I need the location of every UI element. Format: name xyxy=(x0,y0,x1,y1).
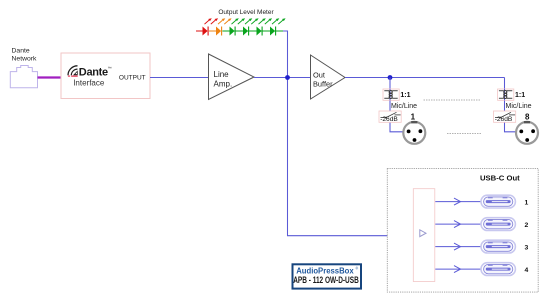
svg-text:-26dB: -26dB xyxy=(380,116,398,123)
node Dante Network label xyxy=(12,48,38,63)
wire output bus xyxy=(345,77,505,79)
LED D4 green xyxy=(243,18,259,35)
connector USB-C 2 xyxy=(481,218,515,231)
wire USB row 1 xyxy=(435,198,481,205)
buffer U2 USB distribution amp xyxy=(413,189,435,282)
wire LED segment (green) xyxy=(222,30,283,32)
svg-text:™: ™ xyxy=(108,66,112,71)
svg-text:Buffer: Buffer xyxy=(313,80,333,89)
svg-text:8: 8 xyxy=(525,112,530,121)
transformer T1 1:1 xyxy=(383,89,399,100)
wire ellipsis channels 2-7 upper xyxy=(424,99,481,101)
connector USB-C 1 xyxy=(481,195,515,208)
wire network to Dante interface xyxy=(38,76,62,78)
wire USB row 4 xyxy=(435,266,481,273)
connector USB-C 4 xyxy=(481,263,515,276)
svg-text:Mic/Line: Mic/Line xyxy=(506,103,532,110)
svg-text:®: ® xyxy=(356,267,359,271)
LED D1 red xyxy=(203,18,219,35)
wire USB row 3 xyxy=(435,243,481,250)
LED D3 green xyxy=(230,18,246,35)
Dante logo icon xyxy=(68,66,78,77)
junction node channel 1 tap xyxy=(388,75,393,80)
junction node meter tap xyxy=(285,75,290,80)
wire Line Amp to Out Buffer xyxy=(254,77,311,79)
wire meter output down to bus and USB feed xyxy=(283,31,414,236)
svg-text:Line: Line xyxy=(214,70,230,79)
switch SW8 -26dB pad xyxy=(494,111,516,123)
block USB-C Out enclosure xyxy=(387,169,538,293)
wire USB row 2 xyxy=(435,221,481,228)
block AudioPressBox nameplate xyxy=(293,264,362,288)
svg-text:USB-C Out: USB-C Out xyxy=(480,173,520,182)
svg-text:Output Level Meter: Output Level Meter xyxy=(218,9,274,16)
svg-text:Dante: Dante xyxy=(12,48,30,55)
svg-text:Out: Out xyxy=(313,70,325,79)
wire channel 1 drop xyxy=(390,78,403,132)
svg-text:APB - 112 OW-D-USB: APB - 112 OW-D-USB xyxy=(293,275,359,285)
svg-text:2: 2 xyxy=(525,222,529,229)
switch SW1 -26dB pad xyxy=(379,111,401,123)
svg-text:Dante: Dante xyxy=(79,67,108,79)
transformer T8 1:1 xyxy=(498,89,514,100)
svg-text:1: 1 xyxy=(525,199,529,206)
LED D6 green xyxy=(270,18,286,35)
svg-text:Mic/Line: Mic/Line xyxy=(391,103,417,110)
wire ellipsis channels 2-7 lower xyxy=(447,133,482,135)
wire LED segment (orange) xyxy=(209,30,216,32)
connector J1 RJ45 Dante network jack xyxy=(10,66,37,88)
svg-text:OUTPUT: OUTPUT xyxy=(119,75,146,82)
wire LED meter feed (red segment) xyxy=(196,30,203,32)
svg-text:4: 4 xyxy=(525,267,529,274)
svg-text:-26dB: -26dB xyxy=(495,116,513,123)
svg-text:1:1: 1:1 xyxy=(515,92,525,99)
LED D5 green xyxy=(257,18,273,35)
connector USB-C 3 xyxy=(481,240,515,253)
op-amp A1 Line Amp xyxy=(209,54,255,100)
wire channel 8 drop xyxy=(505,78,517,132)
block U1 Dante Interface xyxy=(61,53,150,99)
connector XLR8 xyxy=(516,112,538,144)
svg-text:Interface: Interface xyxy=(73,79,105,88)
svg-text:Amp.: Amp. xyxy=(214,80,233,89)
svg-text:3: 3 xyxy=(525,244,529,251)
svg-text:1:1: 1:1 xyxy=(400,92,410,99)
LED D2 orange xyxy=(216,18,232,35)
op-amp A2 Out Buffer xyxy=(311,55,346,99)
wire Dante interface to Line Amp xyxy=(150,77,209,79)
svg-text:1: 1 xyxy=(411,112,416,121)
connector XLR1 xyxy=(403,112,425,144)
svg-text:Network: Network xyxy=(12,55,38,62)
